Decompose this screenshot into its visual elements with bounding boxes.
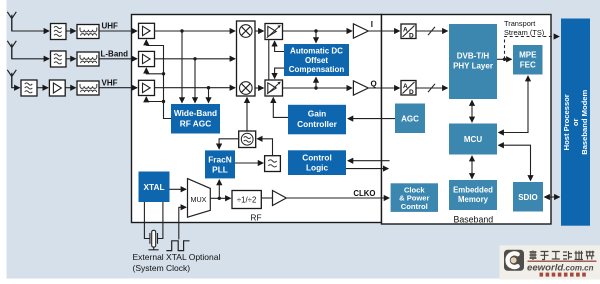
svg-text:Automatic DC: Automatic DC (290, 46, 343, 55)
filter F2 (L-Band bandpass) (51, 51, 67, 67)
wire mixer M2 to VGA2 (255, 87, 264, 89)
label Q (371, 79, 377, 88)
wire SDIO to host (545, 196, 560, 198)
amplifier A1 (VHF front-end amp) (49, 80, 65, 96)
wire UHF sense to RF AGC (181, 31, 183, 103)
svg-text:Offset: Offset (305, 56, 328, 65)
wire MPE FEC to MCU (499, 76, 529, 133)
wire F2 to tracking filter L2 (66, 58, 76, 60)
RF chip outline box (132, 15, 382, 223)
wire MUX output to PLL reference (218, 180, 220, 198)
wire ANT2 to L-Band filter (12, 48, 49, 59)
wire gain to LNA1 (145, 40, 147, 46)
node TS tap (503, 58, 506, 61)
node gain bus to LNA2 (162, 72, 165, 75)
embedded memory box (449, 180, 497, 210)
label I (371, 20, 373, 29)
wire L-Band sense to RF AGC (194, 59, 196, 103)
svg-text:Q: Q (371, 79, 377, 88)
ADC1 (I) (401, 24, 416, 39)
wire LNA2 output to mixer block (155, 58, 236, 60)
wire CLKO to clock and power control (286, 197, 389, 199)
XTAL box (139, 172, 170, 203)
svg-text:D: D (409, 89, 414, 96)
wire MCU to SDIO (499, 145, 531, 180)
wire ADC2 to PHY (416, 87, 448, 89)
wire gain controller to VGA2 (273, 98, 288, 118)
wire Q sense to DC offset box (315, 77, 317, 88)
label External XTAL Optional (133, 252, 221, 273)
svg-text:MPE: MPE (519, 51, 537, 60)
tracking filter L2 (L-Band) (77, 52, 99, 66)
host processor box (561, 19, 590, 226)
wire RF AGC gain bus (146, 46, 171, 119)
svg-text:AGC: AGC (401, 114, 419, 123)
crystal Y1 (external) (148, 230, 158, 250)
svg-text:External XTAL Optional: External XTAL Optional (133, 252, 221, 262)
Q amp (353, 81, 368, 95)
node I line sense (314, 29, 317, 32)
ADC2 (Q) (401, 81, 416, 96)
svg-text:(System Clock): (System Clock) (133, 263, 191, 273)
svg-text:L-Band: L-Band (101, 49, 129, 58)
MUX (188, 179, 211, 218)
wire external clock to MUX (179, 207, 186, 239)
wire divider to clock buffer (261, 197, 272, 199)
svg-text:or: or (571, 118, 580, 126)
svg-text:MCU: MCU (464, 135, 482, 144)
wire MUX to divider (210, 197, 230, 199)
wire gain to LNA3 (146, 97, 163, 102)
clock waveform symbol (166, 241, 189, 251)
node on L-Band line feeding RF AGC (193, 57, 196, 60)
control logic box (288, 150, 346, 175)
svg-text:Control: Control (302, 152, 332, 162)
eeworld logo panel (499, 245, 600, 279)
wire LNA3 output to mixer block (155, 87, 236, 89)
FracN PLL box (205, 150, 235, 178)
wire LNA1 output to mixer block (155, 30, 236, 32)
wire VHF sense to RF AGC (208, 88, 210, 103)
node Q line sense (314, 86, 317, 89)
Baseband outline box (382, 15, 552, 225)
divider (divide by 1 or 2) box (232, 191, 261, 209)
eeworld logo slogan marks (540, 273, 586, 277)
wire VCO to mixers (246, 98, 248, 131)
wire PHY to MCU (471, 101, 473, 123)
VGA1 (I path) (265, 24, 283, 40)
wire baseband to control logic (348, 160, 390, 162)
local oscillator VCO (239, 131, 256, 148)
wire L2 to LNA2 (99, 58, 137, 60)
clock and power control box (391, 183, 438, 212)
svg-text:Baseband Modem: Baseband Modem (580, 90, 589, 155)
wire AGC to gain controller (348, 118, 395, 120)
svg-text:RF: RF (250, 213, 261, 223)
wide-band RF AGC box (171, 104, 220, 134)
label L-Band (101, 49, 129, 58)
wire MCU to embedded memory (471, 156, 473, 179)
AGC box (baseband) (395, 104, 425, 134)
automatic DC offset compensation box (284, 44, 349, 76)
filter F1 (UHF bandpass) (51, 24, 67, 40)
label CLKO (353, 189, 375, 198)
wire XTAL pin 2 (158, 202, 163, 239)
wire control logic to baseband (346, 168, 388, 170)
node on UHF line feeding RF AGC (180, 29, 183, 32)
loop filter box (265, 156, 281, 172)
eeworld logo chinese title (530, 251, 595, 261)
svg-text:CLKO: CLKO (353, 189, 375, 198)
SDIO box (513, 182, 543, 212)
wire VGA gain link (268, 40, 270, 81)
eeworld logo url text (527, 262, 594, 273)
wire Q amp to ADC2 (368, 87, 399, 89)
node gain bus to LNA3 (162, 100, 165, 103)
bus slash Q (428, 84, 435, 92)
svg-text:UHF: UHF (102, 22, 119, 31)
mixer block (237, 21, 256, 96)
wire ANT3 to VHF filter (12, 77, 20, 88)
wire ADC1 to PHY (416, 30, 448, 32)
filter F3 (VHF bandpass) (21, 80, 37, 96)
I amp (353, 24, 368, 38)
wire XTAL to MUX (170, 188, 187, 190)
wire I amp to ADC1 (368, 30, 399, 32)
svg-text:I: I (371, 20, 373, 29)
svg-text:Wide-Band: Wide-Band (174, 108, 217, 118)
wire DC offset correction to VGA2 (275, 68, 284, 78)
svg-text:XTAL: XTAL (143, 182, 164, 192)
wire VCO feedback to PLL (219, 139, 239, 149)
wire L1 to LNA1 (99, 30, 137, 32)
label RF (250, 213, 261, 223)
svg-text:Controller: Controller (297, 119, 337, 129)
label UHF (102, 22, 119, 31)
wire I sense to DC offset box (315, 31, 317, 43)
antenna ANT1 (UHF) (7, 12, 16, 31)
svg-text:Host Processor: Host Processor (562, 94, 571, 150)
svg-text:÷1/÷2: ÷1/÷2 (237, 195, 256, 204)
clock buffer (273, 191, 287, 206)
wire DC offset correction to VGA1 (275, 41, 284, 51)
svg-text:SDIO: SDIO (518, 193, 538, 202)
wire mixer M1 to VGA1 (255, 30, 264, 32)
svg-text:VHF: VHF (102, 78, 118, 87)
svg-text:eeworld.com.cn: eeworld.com.cn (527, 262, 594, 273)
MPE FEC box (513, 45, 543, 75)
MCU box (449, 124, 497, 155)
DVB-T/H PHY layer box (449, 24, 497, 99)
svg-text:Memory: Memory (458, 195, 489, 204)
tracking filter L1 (UHF) (77, 25, 99, 39)
svg-text:Baseband: Baseband (454, 215, 494, 225)
antenna ANT3 (VHF) (7, 70, 16, 88)
svg-text:A: A (403, 27, 408, 34)
LNA1 (UHF) (139, 23, 155, 38)
tracking filter L3 (VHF) (77, 81, 99, 95)
node on VHF line feeding RF AGC (207, 86, 210, 89)
svg-text:PHY Layer: PHY Layer (453, 62, 493, 71)
wire VGA1 to I amp (283, 30, 352, 32)
wire F1 to tracking filter L1 (66, 30, 76, 32)
wire PHY to MPE FEC (497, 58, 512, 60)
VGA2 (Q path) (265, 80, 283, 96)
svg-text:DVB-T/H: DVB-T/H (457, 52, 490, 61)
svg-text:Control: Control (401, 202, 428, 211)
svg-text:Logic: Logic (306, 163, 329, 173)
bus slash I (428, 27, 435, 35)
svg-text:FEC: FEC (520, 61, 536, 70)
wire A1 to tracking filter L3 (65, 87, 75, 89)
mixer M1 (I) (240, 25, 253, 38)
svg-text:Compensation: Compensation (289, 65, 345, 74)
svg-text:MUX: MUX (191, 195, 207, 204)
wire XTAL pin 1 (144, 202, 149, 239)
antenna ANT2 (L-Band) (7, 41, 16, 59)
LNA2 (L-Band) (139, 51, 155, 66)
svg-text:RF AGC: RF AGC (180, 118, 212, 128)
svg-text:Embedded: Embedded (453, 186, 493, 195)
node MUX output (218, 197, 221, 200)
label Transport Stream (TS) (504, 19, 544, 37)
svg-text:Gain: Gain (308, 109, 326, 119)
label VHF (102, 78, 118, 87)
wire F3 to VHF amp (37, 87, 48, 89)
label Baseband (454, 215, 494, 225)
wire gain to LNA2 (146, 68, 163, 74)
svg-text:FracN: FracN (208, 154, 232, 164)
svg-text:Stream (TS): Stream (TS) (504, 28, 544, 37)
wire PLL to loop filter (235, 162, 263, 164)
eeworld logo underline (528, 260, 597, 262)
svg-text:PLL: PLL (212, 165, 228, 175)
LNA3 (VHF) (139, 80, 155, 95)
wire ANT1 to UHF filter (12, 19, 49, 31)
dashed wire transport stream to host (505, 37, 560, 60)
wire VGA2 to Q amp (283, 87, 352, 89)
wire L3 to LNA3 (99, 87, 137, 89)
svg-text:D: D (409, 32, 414, 39)
gain controller box (288, 105, 346, 135)
eeworld logo icon (504, 250, 524, 271)
mixer M2 (Q) (240, 82, 253, 95)
svg-text:A: A (403, 83, 408, 90)
wire loop filter to VCO (257, 139, 272, 156)
